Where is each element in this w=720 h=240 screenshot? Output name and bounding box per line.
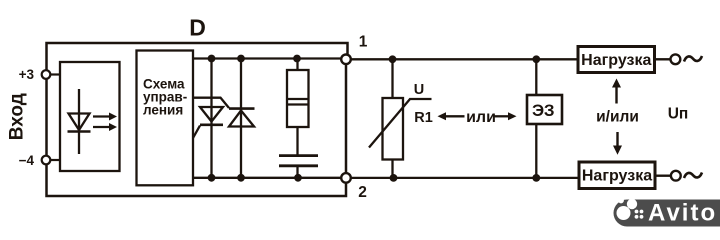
svg-text:−4: −4 <box>19 153 35 168</box>
optocoupler LED <box>68 89 91 154</box>
snubber capacitor <box>279 156 318 178</box>
bottom rail wire (external) <box>351 177 579 179</box>
junction dots bottom rail <box>208 174 302 182</box>
control unit box Схема управления <box>137 51 194 186</box>
load box top Нагрузка <box>578 47 680 73</box>
snubber resistor <box>287 59 309 155</box>
node ЭЗ top <box>532 55 540 63</box>
AC symbol bottom <box>684 173 702 179</box>
svg-text:или: или <box>466 109 496 126</box>
svg-text:ЭЗ: ЭЗ <box>532 101 555 120</box>
junction dots top rail <box>208 55 301 63</box>
top rail wire (external) <box>351 58 578 60</box>
svg-text:Uп: Uп <box>668 105 689 122</box>
optocoupler box <box>60 62 120 171</box>
svg-text:Avito: Avito <box>648 200 717 227</box>
input terminal +3 <box>19 67 60 82</box>
output terminal 1 <box>341 34 367 65</box>
module outline D <box>47 43 348 196</box>
output terminal 2 <box>341 173 367 201</box>
node R1 top <box>389 55 397 63</box>
svg-text:+3: +3 <box>19 67 35 82</box>
svg-text:R1: R1 <box>414 110 433 126</box>
label или with arrows <box>438 109 517 126</box>
svg-text:ления: ления <box>143 103 183 118</box>
svg-text:и/или: и/или <box>596 109 639 126</box>
arrow down to bottom load <box>613 132 622 155</box>
Avito watermark <box>614 198 720 227</box>
svg-text:Вход: Вход <box>6 93 27 140</box>
optocoupler light arrows <box>93 113 117 132</box>
arrow up to top load <box>612 79 621 104</box>
protection element ЭЗ <box>527 59 562 178</box>
top rail wire (inside module) <box>193 57 342 59</box>
svg-text:D: D <box>189 15 206 41</box>
node ЭЗ bottom <box>532 174 540 182</box>
svg-text:U: U <box>414 82 424 98</box>
load box bottom Нагрузка <box>579 162 681 189</box>
thyristor VS2 (right, cathode up) <box>193 59 255 178</box>
node R1 bottom <box>390 174 398 182</box>
input terminal -4 <box>19 153 60 168</box>
AC symbol top <box>684 56 702 62</box>
svg-text:Нагрузка: Нагрузка <box>581 52 651 69</box>
bottom rail wire (inside module) <box>193 177 342 179</box>
svg-text:Нагрузка: Нагрузка <box>582 168 652 185</box>
svg-text:1: 1 <box>359 34 368 51</box>
thyristor VS1 (left, cathode down) <box>193 59 223 178</box>
svg-text:2: 2 <box>358 184 367 201</box>
varistor R1 <box>369 59 432 178</box>
